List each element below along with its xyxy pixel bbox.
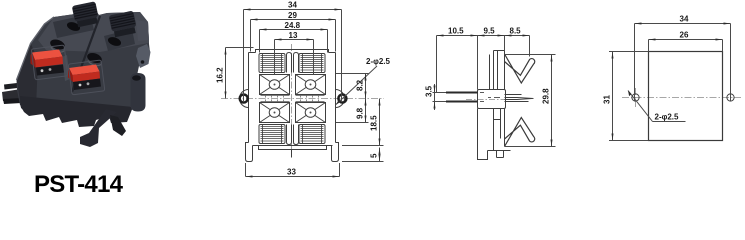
front view bottom-left button recess with X	[260, 103, 290, 123]
side dimension 10.5	[437, 27, 530, 93]
photo leg B short	[110, 115, 126, 136]
dimension 29	[251, 11, 336, 52]
svg-text:16.2: 16.2	[216, 67, 225, 83]
side view bracket	[478, 109, 511, 160]
svg-text:2-φ2.5: 2-φ2.5	[655, 113, 680, 122]
back dimension 34	[635, 15, 731, 102]
svg-text:9.5: 9.5	[484, 27, 496, 36]
front view top-left button recess with X	[260, 75, 290, 95]
front view top-right button recess with X	[296, 75, 326, 95]
photo red button left top	[32, 50, 63, 61]
dimension 34 top	[244, 1, 342, 103]
photo left side face	[17, 44, 38, 114]
front view left mounting ear	[240, 90, 249, 108]
svg-text:PST-414: PST-414	[34, 171, 124, 194]
svg-text:13: 13	[289, 31, 298, 40]
back view left mounting hole	[632, 94, 639, 101]
photo red button right top	[69, 65, 100, 76]
svg-text:5: 5	[370, 153, 379, 158]
side dimension 29.8	[505, 55, 556, 147]
photo divider ridge light	[62, 55, 70, 81]
photo lever right	[109, 11, 138, 38]
photo body main silhouette	[17, 11, 151, 117]
photo red button right front	[73, 72, 101, 83]
side view front rib	[489, 55, 491, 90]
photo red button right side	[68, 68, 73, 82]
back label 2-phi2.5	[628, 91, 686, 122]
photo front oval left	[49, 38, 66, 52]
front view vertical centerline	[291, 44, 293, 158]
front view tick band above centerline	[261, 96, 325, 98]
svg-text:34: 34	[288, 1, 297, 10]
front view top-right spring hatch unit	[299, 54, 325, 73]
dimension 8.2	[336, 74, 369, 99]
front view bottom-right button recess with X	[296, 103, 326, 123]
photo base castellated strip	[20, 96, 133, 127]
photo deck surface	[38, 11, 149, 52]
front view left leg	[246, 143, 253, 162]
dimension 33 bottom	[246, 163, 340, 178]
photo lever left	[72, 1, 100, 27]
front view bottom-right spring hatch unit	[299, 125, 325, 144]
back dimension 26	[649, 31, 723, 52]
side view pin 1	[446, 92, 478, 94]
svg-text:18.5: 18.5	[370, 115, 379, 131]
svg-text:34: 34	[680, 15, 689, 24]
photo unit frame right	[68, 60, 105, 95]
side view pin 2	[446, 101, 478, 103]
svg-text:31: 31	[603, 95, 612, 104]
svg-text:2-φ2.5: 2-φ2.5	[366, 57, 391, 66]
svg-text:26: 26	[680, 31, 689, 40]
photo red button left front	[35, 57, 63, 68]
front view right mounting ear	[336, 90, 345, 108]
photo center groove	[72, 16, 100, 92]
dimension 5	[342, 148, 384, 162]
photo unit block right	[104, 29, 135, 51]
svg-text:8.2: 8.2	[356, 79, 365, 91]
svg-text:8.5: 8.5	[510, 27, 522, 36]
side view main plate	[494, 51, 505, 147]
front view right leg	[332, 143, 339, 162]
side view terminal box	[478, 90, 506, 109]
front view top-left spring hatch unit	[259, 54, 285, 73]
photo unit block left	[53, 14, 94, 38]
svg-text:24.8: 24.8	[285, 21, 301, 30]
dimension 16.2 left	[216, 48, 254, 99]
photo unit frame left	[31, 45, 68, 80]
photo left rim light	[17, 17, 55, 80]
side dimension 8.5	[505, 27, 530, 57]
front view top center posts	[287, 53, 299, 73]
front view horizontal centerline	[221, 98, 384, 100]
svg-text:33: 33	[287, 168, 296, 177]
back dimension 31	[603, 52, 649, 141]
back view centerline	[622, 88, 741, 107]
side view centerline	[466, 99, 517, 101]
photo solder lug thin	[4, 83, 18, 90]
svg-text:9.8: 9.8	[356, 107, 365, 119]
front view center tick below base	[291, 150, 293, 158]
side view top spring clip	[505, 54, 535, 83]
side view middle needle terminal	[505, 95, 534, 102]
svg-text:3.5: 3.5	[425, 85, 434, 97]
dimension 18.5	[342, 99, 384, 146]
photo unit block left top oval	[66, 20, 82, 32]
back view right mounting hole	[727, 94, 734, 101]
back view body rectangle	[649, 52, 723, 141]
photo rear right cylinder leg	[131, 73, 146, 112]
front view body outline	[249, 50, 336, 150]
side dimension 3.5	[425, 84, 447, 110]
svg-text:10.5: 10.5	[448, 27, 464, 36]
label 2-phi2.5 front	[336, 57, 391, 105]
photo leg A down-left with foot	[80, 109, 117, 147]
dimension 24.8	[260, 21, 328, 53]
svg-text:29.8: 29.8	[542, 88, 551, 104]
photo unit block right top oval	[107, 35, 123, 47]
photo right ear tab	[136, 44, 151, 68]
photo front oval right	[86, 51, 103, 65]
side dimension 9.5	[478, 27, 505, 52]
dimension 13	[275, 31, 314, 75]
dimension 9.8	[336, 99, 369, 123]
photo top right corner light	[136, 20, 149, 41]
photo contact recess left	[36, 65, 64, 76]
front view tick band below centerline	[261, 100, 325, 102]
front view bottom center posts	[287, 125, 299, 145]
front view bottom-left spring hatch unit	[259, 125, 285, 144]
photo contact recess right	[73, 79, 101, 91]
svg-text:29: 29	[288, 11, 297, 20]
side view bottom spring clip	[505, 118, 535, 147]
photo solder lug big	[2, 89, 22, 101]
photo red button left side	[31, 53, 36, 68]
